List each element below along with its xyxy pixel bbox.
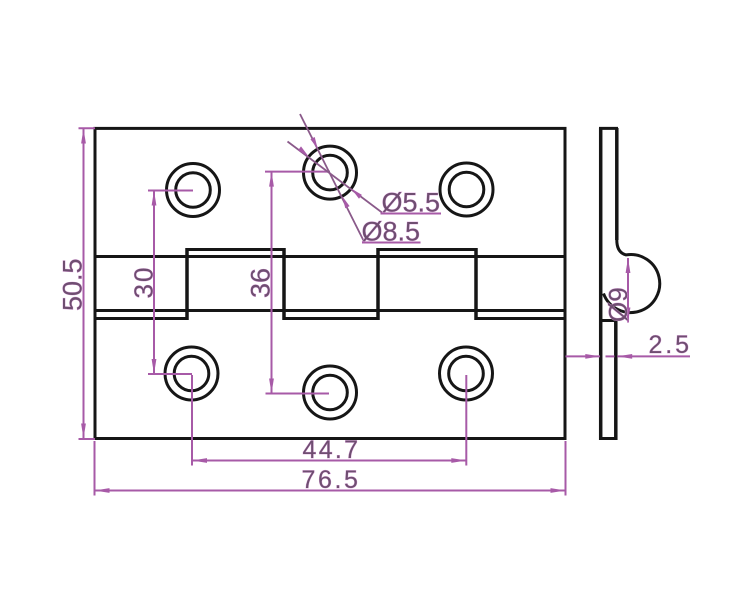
dim 2.5 line left bbox=[566, 355, 601, 357]
side view bottom edge bbox=[599, 437, 618, 440]
dim 50.5 arrow down bbox=[81, 424, 86, 439]
dim diameter 9 arrow up bbox=[626, 258, 631, 273]
dim 30 arrow down bbox=[152, 359, 157, 374]
leader diameter 5.5 arrow upper bbox=[298, 146, 309, 156]
dim 44.7 arrow left bbox=[192, 458, 207, 463]
dim 30 arrow up bbox=[152, 191, 157, 206]
hole H3 top-right bbox=[440, 163, 493, 216]
dim 50.5 extension bottom bbox=[79, 438, 96, 440]
dim 44.7 extension right bbox=[465, 375, 467, 466]
knuckle box 2 top line bbox=[378, 248, 476, 251]
leader diameter 5.5 line bbox=[288, 142, 383, 213]
hole H4 bottom-left bbox=[165, 347, 218, 400]
svg-text:36: 36 bbox=[246, 268, 276, 298]
dim 44.7 line bbox=[192, 460, 466, 462]
knuckle box 1 top line bbox=[187, 248, 284, 251]
leaf segment 1 lower line bbox=[95, 317, 187, 320]
dim 76.5 arrow left bbox=[95, 488, 110, 493]
barrel band top line bbox=[95, 255, 565, 258]
dim 76.5 extension right bbox=[565, 441, 567, 496]
dim 36 extension top bbox=[265, 171, 330, 173]
side view left edge bbox=[599, 128, 603, 440]
dim 30 line bbox=[153, 191, 155, 375]
hole H2 top-middle bbox=[304, 146, 357, 199]
dim diameter 9 line bbox=[627, 258, 629, 323]
svg-text:44.7: 44.7 bbox=[303, 436, 361, 464]
dim 30 extension top bbox=[148, 190, 193, 192]
svg-text:50.5: 50.5 bbox=[58, 258, 88, 311]
dim 76.5 extension left bbox=[94, 441, 96, 496]
dim 2.5 mid segment bbox=[606, 355, 615, 357]
leader diameter 8.5 arrow lower bbox=[342, 196, 349, 208]
dim 30 extension bottom bbox=[148, 373, 192, 375]
hole H1 top-left bbox=[167, 164, 220, 217]
svg-text:Ø8.5: Ø8.5 bbox=[362, 217, 421, 247]
dim 50.5 line bbox=[83, 129, 85, 439]
dim 36 arrow up bbox=[269, 172, 274, 187]
svg-text:2.5: 2.5 bbox=[649, 331, 692, 359]
dim 36 line bbox=[271, 172, 273, 394]
leaf segment 5 lower line bbox=[476, 317, 565, 320]
knuckle joint vertical 3 bbox=[376, 248, 380, 320]
side view right edge upper bbox=[615, 128, 619, 240]
barrel band bottom line bbox=[95, 309, 565, 312]
hole H5 bottom-middle bbox=[304, 366, 357, 419]
dim 36 arrow down bbox=[269, 379, 274, 394]
leader diameter 8.5 underline bbox=[362, 242, 421, 244]
knuckle joint vertical 2 bbox=[282, 248, 286, 320]
side view right edge lower bbox=[614, 321, 618, 441]
dim 2.5 arrow left-pointing bbox=[617, 354, 632, 359]
side view knuckle curl bbox=[604, 240, 660, 313]
dim 76.5 arrow right bbox=[551, 488, 566, 493]
hole H6 bottom-right bbox=[440, 347, 493, 400]
dim 44.7 arrow right bbox=[451, 458, 466, 463]
svg-text:76.5: 76.5 bbox=[302, 466, 361, 494]
dim 44.7 extension left bbox=[191, 375, 193, 466]
leader diameter 5.5 underline bbox=[381, 213, 442, 215]
leader diameter 8.5 line bbox=[300, 114, 365, 243]
svg-text:30: 30 bbox=[129, 266, 159, 299]
leader diameter 8.5 arrow upper bbox=[310, 137, 317, 149]
side view top edge bbox=[599, 127, 618, 130]
knuckle joint vertical 1 bbox=[185, 248, 189, 320]
dim 50.5 arrow up bbox=[81, 129, 86, 144]
dim diameter 9 arrow down bbox=[626, 308, 631, 323]
dim 50.5 extension top bbox=[79, 127, 96, 129]
side view barrel cut line bbox=[599, 319, 616, 322]
leader diameter 5.5 arrow lower bbox=[351, 189, 362, 199]
dim 36 extension bottom bbox=[266, 393, 330, 395]
hinge front view plate outline bbox=[95, 128, 565, 438]
knuckle joint vertical 4 bbox=[474, 248, 478, 320]
svg-text:Ø9: Ø9 bbox=[603, 287, 633, 322]
dim 76.5 line bbox=[95, 490, 566, 492]
leaf segment 3 lower line bbox=[284, 317, 378, 320]
dim 2.5 line right bbox=[617, 355, 690, 357]
svg-text:Ø5.5: Ø5.5 bbox=[382, 188, 441, 218]
dim 2.5 arrow right-pointing bbox=[585, 354, 600, 359]
